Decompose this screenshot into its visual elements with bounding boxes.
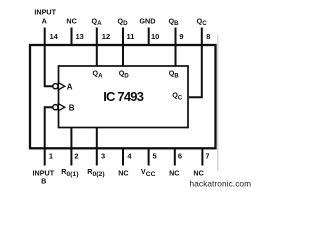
pin 10 stub: [148, 28, 150, 46]
svg-text:1: 1: [49, 151, 53, 160]
svg-text:7: 7: [205, 151, 209, 160]
svg-text:6: 6: [178, 151, 182, 160]
svg-text:11: 11: [127, 32, 135, 41]
pin 1 stub and wire to input B: [45, 107, 53, 165]
svg-text:14: 14: [50, 32, 59, 41]
svg-text:A: A: [67, 82, 73, 91]
svg-text:hackatronic.com: hackatronic.com: [190, 179, 252, 189]
input B clock wedge: [58, 104, 64, 111]
IC package outline U1 (DIP-14 body): [30, 45, 216, 148]
pin 9 stub and wire: [175, 28, 177, 67]
svg-text:IC 7493: IC 7493: [103, 89, 144, 104]
pin 7 stub: [201, 148, 203, 165]
svg-text:2: 2: [74, 151, 78, 160]
svg-text:B: B: [69, 103, 75, 112]
svg-text:9: 9: [179, 32, 183, 41]
svg-text:GND: GND: [139, 17, 155, 26]
svg-text:NC: NC: [66, 17, 76, 26]
pin 3 stub and wire R0(2): [96, 128, 98, 166]
faint border line right of package: [217, 35, 219, 171]
pin 2 stub and wire R0(1): [70, 128, 72, 166]
svg-text:NC: NC: [193, 168, 203, 177]
pin 4 stub: [122, 148, 124, 165]
pin 8 stub and wire to QC: [189, 28, 202, 98]
pin 14 stub and wire to input A: [45, 28, 53, 87]
input B inversion bubble: [53, 105, 58, 110]
pin 11 stub and wire: [122, 28, 124, 67]
svg-text:A: A: [42, 17, 47, 26]
svg-text:10: 10: [151, 32, 159, 41]
svg-text:5: 5: [153, 151, 157, 160]
pin 13 stub: [71, 28, 73, 46]
pin 5 stub: [148, 148, 150, 165]
svg-text:8: 8: [206, 32, 210, 41]
svg-text:NC: NC: [169, 168, 179, 177]
svg-text:13: 13: [76, 32, 84, 41]
svg-text:INPUT: INPUT: [34, 8, 56, 17]
input A clock wedge: [58, 83, 64, 90]
input A inversion bubble: [53, 84, 58, 89]
svg-text:3: 3: [101, 151, 105, 160]
svg-text:12: 12: [102, 32, 110, 41]
pin 12 stub and wire: [96, 28, 98, 67]
pin 6 stub: [174, 148, 176, 165]
svg-text:B: B: [41, 177, 46, 186]
svg-text:NC: NC: [118, 168, 128, 177]
inner function block IC 7493: [59, 66, 189, 128]
